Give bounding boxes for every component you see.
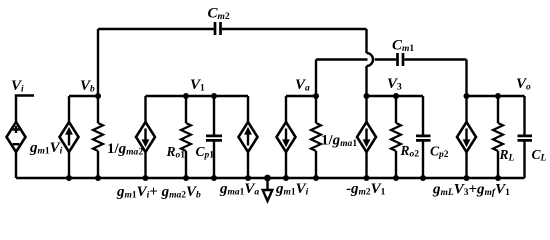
current source gmLV3+gmfV1 diamond down arrow bbox=[457, 122, 476, 152]
current source -gm2V1 diamond down arrow bbox=[357, 122, 376, 152]
wire V3 rail bbox=[367, 95, 424, 97]
wire branch at 366.5 bbox=[365, 96, 367, 178]
junction dot 1/gma1 bottom bbox=[313, 175, 319, 181]
junction dot 1/gma2 bottom bbox=[95, 175, 101, 181]
capacitor Cp1 bbox=[213, 96, 215, 178]
junction dot RL bottom bbox=[495, 175, 501, 181]
ground bbox=[264, 175, 271, 182]
junction dot gm1Vi+gma2Vb source bottom bbox=[143, 175, 149, 181]
wire Vi node stub bbox=[15, 94, 34, 96]
resistor Ro2 bbox=[395, 96, 397, 178]
wire Cm1 riser from Va bbox=[315, 60, 317, 97]
node dot V3 left bbox=[364, 93, 370, 99]
junction dot gmL source bottom bbox=[464, 175, 470, 181]
junction dot -gm2V1 source bottom bbox=[364, 175, 370, 181]
wire Cm1 left run bbox=[316, 58, 368, 60]
wire Vo rail bbox=[467, 95, 525, 97]
resistor 1/gma1 bbox=[315, 96, 317, 178]
wire Cm2 right run bbox=[222, 28, 367, 30]
wire Cm1 drop to Vo bbox=[465, 60, 467, 97]
current source gma1Va diamond up arrow bbox=[239, 122, 258, 152]
wire V1 rail bbox=[146, 95, 249, 97]
wire Cm2 riser to V3 with hop over Cm1 bbox=[365, 29, 367, 53]
wire Vi branch vertical bbox=[15, 96, 17, 179]
wire Cm2 riser from Vb bbox=[97, 29, 99, 96]
capacitor CL bbox=[523, 96, 525, 178]
resistor RL bbox=[497, 96, 499, 178]
capacitor Cm2 plates bbox=[215, 22, 221, 35]
wire gm1Vi branch vertical bbox=[68, 96, 70, 178]
junction dot gma1Va source bottom bbox=[245, 175, 251, 181]
node dot Ro2 top bbox=[393, 93, 399, 99]
junction dot Cp1 bottom bbox=[211, 175, 217, 181]
junction dot Cp2 bottom bbox=[420, 175, 426, 181]
node dot Cp1 top bbox=[211, 93, 217, 99]
wire Vb top link bbox=[69, 95, 98, 97]
node Vb junction dot bbox=[95, 93, 101, 99]
junction dot Ro2 bottom bbox=[393, 175, 399, 181]
current source gm1Vi diamond down arrow bbox=[277, 122, 296, 152]
capacitor Cm1 plates bbox=[398, 53, 404, 66]
wire Cm1 resumed after hop bbox=[375, 58, 397, 60]
node dot Ro1 top bbox=[183, 93, 189, 99]
resistor 1/gma2 bbox=[97, 96, 99, 178]
node dot Vo left bbox=[464, 93, 470, 99]
junction dot Ro1 bottom bbox=[183, 175, 189, 181]
wire branch at 466.5 bbox=[465, 96, 467, 178]
current source gm1Vi+gma2Vb diamond down arrow bbox=[136, 122, 155, 152]
capacitor Cp2 bbox=[422, 96, 424, 178]
node dot RL top bbox=[495, 93, 501, 99]
resistor Ro1 bbox=[185, 96, 187, 178]
wire branch at 145.5 bbox=[144, 96, 146, 178]
wire bottom ground rail bbox=[16, 177, 525, 179]
current source gm1Vi diamond up arrow bbox=[60, 122, 79, 152]
wire gm1Vi branch (Va group) bbox=[285, 96, 287, 178]
node Va junction dot bbox=[313, 93, 319, 99]
wire Cm1 right run bbox=[404, 58, 466, 60]
wire branch at 248 bbox=[247, 96, 249, 178]
voltage source Vi diamond bbox=[7, 122, 26, 152]
junction dot gm1Vi source bottom bbox=[66, 175, 72, 181]
wire Va top link bbox=[286, 95, 316, 97]
junction dot gm1Vi source (Va group) bottom bbox=[283, 175, 289, 181]
wire Cm2 left run bbox=[98, 28, 214, 30]
